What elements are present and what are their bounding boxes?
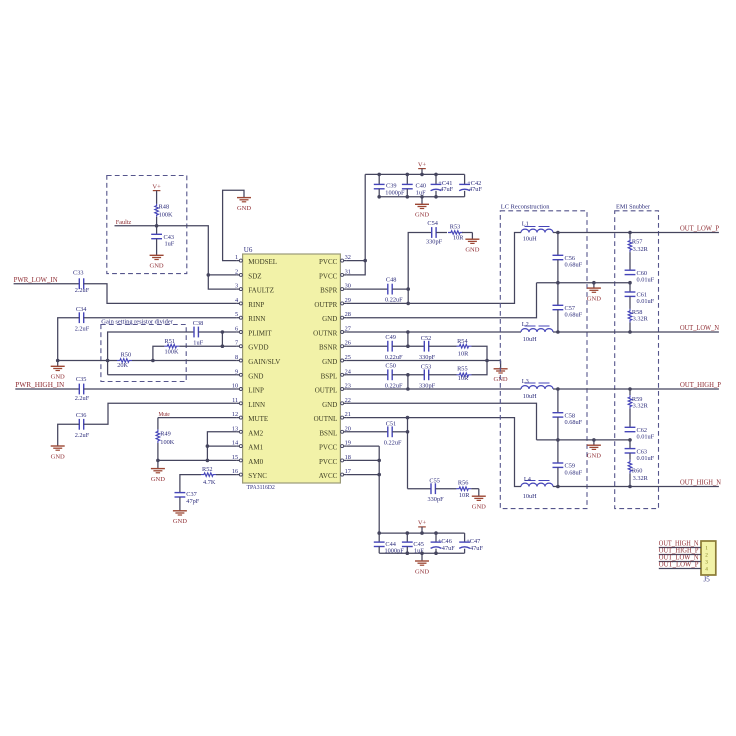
svg-text:R54: R54 <box>457 338 468 345</box>
svg-text:L4: L4 <box>524 476 532 483</box>
svg-text:0.22uF: 0.22uF <box>385 354 403 361</box>
wire V+ stub to bus <box>421 169 423 175</box>
ground (C37) <box>173 511 187 525</box>
junction L1 out <box>556 231 560 235</box>
net label OUT_HIGH_P (J5) <box>659 547 699 555</box>
wire C34 to RINN <box>84 317 237 319</box>
svg-text:1000pF: 1000pF <box>385 189 405 196</box>
pin 10 (LINP) <box>232 383 264 395</box>
pin 4 (RINP) <box>235 297 264 309</box>
capacitor C55 <box>428 478 445 503</box>
svg-text:0.68uF: 0.68uF <box>565 419 583 426</box>
wire OUTNL to L4 <box>346 418 521 487</box>
junction R49 ground <box>156 459 160 463</box>
wire R49 to ground rail <box>157 443 159 460</box>
junction OUTPR <box>406 302 410 306</box>
svg-text:47uF: 47uF <box>442 545 455 552</box>
wire bus to ground <box>421 197 423 204</box>
svg-text:100K: 100K <box>165 348 179 355</box>
capacitor C36 <box>75 412 90 439</box>
wire R51 to GVDD <box>179 345 236 347</box>
wire PVCC top bus <box>365 173 464 175</box>
pin 27 (OUTNR) <box>313 326 351 338</box>
wire OUT_LOW_N to J5 pin 3 <box>659 561 701 563</box>
capacitor C60 <box>625 270 655 284</box>
capacitor C48 <box>385 277 403 304</box>
wire OUTPR node to C54 <box>408 233 432 304</box>
wire PVCC pins 19/18/17 tie <box>346 446 379 533</box>
wire PVCC bus to pins 32/31 <box>346 174 365 275</box>
svg-text:GND: GND <box>465 247 479 254</box>
wire GAIN node to R51 <box>153 346 165 360</box>
capacitor C33 <box>73 269 90 294</box>
wire R50 to GAIN/SLV pin <box>132 360 237 362</box>
wire C35 to LINP <box>84 388 237 390</box>
connector J5 refdes <box>704 576 711 584</box>
wire BSNR to C49 <box>346 345 388 347</box>
ground (C43) <box>150 255 164 269</box>
inductor L3 <box>521 378 553 400</box>
svg-text:PVCC: PVCC <box>319 272 338 280</box>
svg-text:0.22uF: 0.22uF <box>385 297 403 304</box>
resistor R57 <box>628 233 648 271</box>
net label Mute <box>159 411 170 418</box>
wire ground rail to R50 <box>58 360 117 362</box>
wire R52 to SYNC <box>216 474 237 476</box>
wire Mute to MUTE pin <box>158 417 237 419</box>
junction AM0 <box>206 459 210 463</box>
svg-text:AM0: AM0 <box>248 458 263 466</box>
pin 7 (GVDD) <box>235 340 268 352</box>
resistor R55 <box>457 365 472 382</box>
IC U6 refdes <box>244 246 253 254</box>
svg-text:1uF: 1uF <box>193 339 203 346</box>
svg-text:C50: C50 <box>385 362 396 369</box>
junction C50/OUTPL <box>406 373 410 391</box>
svg-text:10uH: 10uH <box>523 336 537 343</box>
wire bank to ground <box>421 553 423 561</box>
junction GVDD <box>221 344 225 348</box>
EMI box label <box>616 204 650 211</box>
wire GND pin 25 to ground <box>346 361 500 369</box>
pin 21 (OUTNL) <box>314 411 351 423</box>
wire AM0 rail <box>158 459 237 461</box>
svg-text:10R: 10R <box>458 375 469 382</box>
svg-text:R56: R56 <box>458 480 469 487</box>
svg-text:GND: GND <box>237 205 251 212</box>
pin 26 (BSNR) <box>319 340 351 352</box>
svg-text:C38: C38 <box>193 320 204 327</box>
wire C55 to R56 <box>435 488 456 490</box>
wire BSNL to C51 <box>346 431 388 433</box>
pin 8 (GAIN/SLV) <box>235 354 280 366</box>
power symbol V+ (PVCC top) <box>418 161 427 168</box>
net label OUT_LOW_P <box>680 225 719 233</box>
junction AM1 <box>206 444 210 448</box>
svg-text:V+: V+ <box>418 161 427 168</box>
pin 14 (AM1) <box>232 440 264 452</box>
ground (PVCC bank) <box>415 204 429 218</box>
svg-text:MODSEL: MODSEL <box>248 258 277 266</box>
wire GND pin 22 to mid rail <box>346 403 536 440</box>
svg-text:10R: 10R <box>458 350 469 357</box>
svg-text:L2: L2 <box>522 321 529 328</box>
net label OUT_HIGH_N <box>680 479 721 487</box>
LC Reconstruction dashed box <box>500 211 587 509</box>
power symbol V+ (PVCC bottom) <box>418 520 427 527</box>
junction C56/C57 mid <box>556 281 560 285</box>
svg-text:AM2: AM2 <box>248 429 263 437</box>
svg-text:330pF: 330pF <box>426 239 443 246</box>
pin 3 (FAULTZ) <box>235 283 274 295</box>
wire C33 to RINP <box>84 284 237 304</box>
capacitor C56 <box>553 233 583 283</box>
svg-text:0.68uF: 0.68uF <box>565 312 583 319</box>
wire L4 to OUT_HIGH_N <box>553 486 719 488</box>
resistor R60 <box>628 460 648 487</box>
wire R54/R55 join <box>472 346 488 375</box>
svg-text:SDZ: SDZ <box>248 272 261 280</box>
junction mid gnd stub lower <box>592 438 596 442</box>
svg-text:C34: C34 <box>76 306 87 313</box>
capacitor C53 <box>419 364 436 390</box>
svg-text:GND: GND <box>472 504 486 511</box>
junction pin 18 <box>377 459 381 463</box>
EMI Snubber dashed box <box>615 211 659 509</box>
capacitor C39 <box>374 174 405 196</box>
wire Faultz net to SDZ <box>115 226 237 275</box>
ground (bottom bank) <box>415 561 429 575</box>
capacitor C54 <box>426 220 443 246</box>
svg-text:330pF: 330pF <box>419 354 436 361</box>
capacitor C62 <box>625 427 655 441</box>
junction R59 top <box>628 387 632 391</box>
junction R57 top <box>628 231 632 235</box>
svg-text:32: 32 <box>345 254 351 261</box>
net label OUT_LOW_N <box>680 324 719 332</box>
wire Mute to R49 <box>157 418 159 430</box>
svg-text:SYNC: SYNC <box>248 472 267 480</box>
capacitor C51 <box>384 421 402 447</box>
svg-text:R50: R50 <box>121 352 132 359</box>
ground (R53) <box>465 239 479 253</box>
svg-text:R55: R55 <box>457 365 468 372</box>
junction OUTNL/C51 <box>406 416 410 434</box>
svg-text:L3: L3 <box>522 378 529 385</box>
svg-text:PWR_LOW_IN: PWR_LOW_IN <box>14 276 58 284</box>
net label PWR_LOW_IN <box>14 276 58 284</box>
svg-text:BSPR: BSPR <box>320 287 337 295</box>
pin 18 (PVCC) <box>319 454 351 466</box>
wire C51 to OUTNL node <box>392 418 407 489</box>
svg-text:AVCC: AVCC <box>319 472 338 480</box>
ground (R56) <box>472 496 486 510</box>
svg-text:2.2uF: 2.2uF <box>75 325 90 332</box>
svg-text:PVCC: PVCC <box>319 458 338 466</box>
svg-text:47uF: 47uF <box>470 545 483 552</box>
Faultz dashed box <box>107 176 187 274</box>
svg-text:GND: GND <box>587 295 601 302</box>
junction GAIN node <box>151 359 155 363</box>
svg-text:Mute: Mute <box>159 411 170 418</box>
pin 17 (AVCC) <box>319 468 351 480</box>
wire C34 to ground rail <box>58 318 80 361</box>
net label OUT_HIGH_P <box>680 381 721 389</box>
net label PWR_HIGH_IN <box>15 381 64 389</box>
inductor L2 <box>521 321 553 343</box>
capacitor C40 <box>402 174 426 196</box>
svg-text:OUT_LOW_P: OUT_LOW_P <box>659 561 699 569</box>
pin 2 (SDZ) <box>235 268 261 280</box>
wire to FAULTZ pin 3 <box>208 275 237 289</box>
capacitor C34 <box>75 306 90 332</box>
junction R60 bottom <box>628 485 632 489</box>
pin 13 (AM2) <box>232 425 264 437</box>
svg-text:L1: L1 <box>522 220 529 227</box>
svg-text:C52: C52 <box>421 335 432 342</box>
svg-text:C51: C51 <box>386 421 397 428</box>
IC U6 part number TPA3116D2 <box>247 484 275 491</box>
ground (C36) <box>51 446 65 460</box>
svg-text:PVCC: PVCC <box>319 258 338 266</box>
junction pin 17 <box>377 473 381 477</box>
wire OUTNR to L2 <box>346 331 521 333</box>
svg-text:EMI Snubber: EMI Snubber <box>616 204 650 211</box>
svg-text:Gain setting resistor divider: Gain setting resistor divider <box>101 319 173 325</box>
junction pin 32 <box>363 259 367 263</box>
svg-text:V+: V+ <box>152 183 161 190</box>
ground (pin 25) <box>494 369 508 383</box>
pin 9 (GND) <box>235 368 263 380</box>
svg-text:GND: GND <box>173 518 187 525</box>
svg-text:R48: R48 <box>159 204 170 211</box>
svg-text:C53: C53 <box>421 364 432 371</box>
svg-text:2.2uF: 2.2uF <box>75 287 90 294</box>
wire C50 to OUTPL <box>392 375 424 389</box>
wire C38 ground loop <box>108 332 194 375</box>
pin 6 (PLIMIT) <box>235 326 272 338</box>
capacitor C59 <box>553 440 583 487</box>
capacitor C49 <box>385 334 403 361</box>
junction snubber ground <box>485 359 489 363</box>
pin 12 (MUTE) <box>232 411 268 423</box>
pin 15 (AM0) <box>232 454 264 466</box>
svg-text:0.22uF: 0.22uF <box>384 440 402 447</box>
power symbol V+ (Faultz) <box>152 183 161 190</box>
wire BSPR to C48 <box>346 288 388 290</box>
svg-text:10uH: 10uH <box>523 493 537 500</box>
ground (gain divider) <box>51 361 65 381</box>
pin 29 (OUTPR) <box>314 297 351 309</box>
pin 23 (OUTPL) <box>315 383 351 395</box>
resistor R48 <box>155 204 173 219</box>
svg-text:330pF: 330pF <box>428 496 445 503</box>
pin 28 (GND) <box>322 311 351 323</box>
svg-text:GND: GND <box>415 212 429 219</box>
svg-text:47pF: 47pF <box>186 498 199 505</box>
svg-text:31: 31 <box>345 268 351 275</box>
junction Faultz node <box>155 224 159 228</box>
svg-text:1: 1 <box>235 254 238 261</box>
svg-text:AM1: AM1 <box>248 444 263 452</box>
svg-text:FAULTZ: FAULTZ <box>248 287 274 295</box>
svg-text:OUT_LOW_P: OUT_LOW_P <box>680 225 719 233</box>
wire MODSEL to ground <box>223 190 244 260</box>
svg-text:1: 1 <box>705 546 708 552</box>
svg-text:LINP: LINP <box>248 387 264 395</box>
svg-text:OUT_HIGH_P: OUT_HIGH_P <box>680 381 721 389</box>
capacitor C41 <box>431 174 454 196</box>
svg-text:GND: GND <box>151 476 165 483</box>
pin 11 (LINN) <box>232 397 265 409</box>
junction SDZ node <box>207 273 211 277</box>
svg-text:OUTPR: OUTPR <box>314 301 337 309</box>
resistor R58 <box>628 309 648 332</box>
svg-text:10R: 10R <box>459 492 470 499</box>
pin 32 (PVCC) <box>319 254 351 266</box>
junction L4 out <box>556 485 560 489</box>
svg-text:1uF: 1uF <box>165 241 175 248</box>
gain box label <box>101 319 173 325</box>
wire AM2/AM1 tie <box>207 432 236 461</box>
LC box label <box>501 204 550 211</box>
svg-text:3.32R: 3.32R <box>633 403 649 410</box>
wire to C55 <box>408 488 432 490</box>
wire bottom bank top bus <box>379 532 464 534</box>
pin 30 (BSPR) <box>320 283 351 295</box>
svg-text:3.32R: 3.32R <box>633 316 649 323</box>
capacitor C63 <box>625 440 655 462</box>
wire GND pin 9 <box>108 374 237 376</box>
capacitor C58 <box>553 389 583 440</box>
svg-text:C48: C48 <box>386 277 397 284</box>
wire R48 to Faultz node <box>156 217 158 226</box>
junction input ground <box>56 359 60 363</box>
svg-text:R52: R52 <box>202 466 213 473</box>
svg-text:PVCC: PVCC <box>319 444 338 452</box>
svg-text:LINN: LINN <box>248 401 265 409</box>
svg-text:C35: C35 <box>76 376 87 383</box>
wire PWR_HIGH_IN to C35 <box>15 388 79 390</box>
svg-text:0.01uF: 0.01uF <box>637 434 655 441</box>
svg-text:GND: GND <box>248 372 263 380</box>
wire OUTPL to L3 <box>346 388 521 390</box>
svg-text:10R: 10R <box>453 235 464 242</box>
wire PLIMIT-GVDD tie <box>221 332 223 346</box>
resistor R56 <box>456 480 471 500</box>
wire OUT_HIGH_N to J5 pin 1 <box>659 547 701 549</box>
svg-text:GND: GND <box>587 453 601 460</box>
net label OUT_HIGH_N (J5) <box>659 540 699 548</box>
capacitor C50 <box>385 362 403 389</box>
wire R56 to ground <box>471 489 479 496</box>
capacitor C45 <box>402 533 424 554</box>
pin 24 (BSPL) <box>321 368 352 380</box>
wire C36 to ground <box>58 424 80 445</box>
junction PLIMIT <box>221 330 225 334</box>
pin 19 (PVCC) <box>319 440 351 452</box>
svg-text:10uH: 10uH <box>523 236 537 243</box>
svg-text:GND: GND <box>322 358 337 366</box>
svg-text:C33: C33 <box>73 269 84 276</box>
svg-text:R57: R57 <box>632 239 643 246</box>
capacitor C47 <box>459 533 483 553</box>
svg-text:100K: 100K <box>160 439 174 446</box>
capacitor C46 <box>431 533 456 553</box>
resistor R51 <box>164 338 179 355</box>
junction L2 out <box>556 330 560 334</box>
wire PWR_LOW_IN to C33 <box>14 283 80 285</box>
svg-text:2.2uF: 2.2uF <box>75 395 90 402</box>
capacitor C43 <box>151 226 175 255</box>
svg-text:R49: R49 <box>160 430 171 437</box>
resistor R59 <box>628 389 648 427</box>
svg-text:R53: R53 <box>450 224 461 231</box>
svg-text:2: 2 <box>705 553 708 559</box>
wire C52 to R54 <box>429 345 457 347</box>
svg-text:0.68uF: 0.68uF <box>565 262 583 269</box>
wire bottom bank bottom bus <box>379 552 464 554</box>
wire R53 to ground <box>462 233 472 240</box>
wire C53 to R55 <box>429 374 457 376</box>
svg-text:C55: C55 <box>429 478 440 485</box>
svg-text:GND: GND <box>322 315 337 323</box>
junction mid gnd stub <box>592 281 596 285</box>
svg-text:BSNR: BSNR <box>319 344 338 352</box>
svg-text:10uH: 10uH <box>523 393 537 400</box>
junction ground loop <box>106 359 110 363</box>
junctions top bus <box>377 173 437 177</box>
capacitor C44 <box>374 533 404 554</box>
svg-text:OUTPL: OUTPL <box>315 387 338 395</box>
svg-text:3: 3 <box>235 283 238 290</box>
pin 5 (RINN) <box>235 311 265 323</box>
junction EMI mid upper <box>628 281 632 285</box>
svg-text:BSNL: BSNL <box>319 429 337 437</box>
svg-text:4: 4 <box>705 567 708 573</box>
svg-text:3.32R: 3.32R <box>633 475 649 482</box>
junction C58/C59 mid <box>556 438 560 442</box>
wire L2 to OUT_LOW_N <box>553 331 719 333</box>
svg-text:2: 2 <box>235 268 238 275</box>
connector J5 body <box>701 541 716 575</box>
pin 22 (GND) <box>322 397 351 409</box>
svg-text:PLIMIT: PLIMIT <box>248 330 272 338</box>
junction EMI mid lower <box>628 438 632 442</box>
svg-text:47uF: 47uF <box>440 186 453 193</box>
svg-text:GND: GND <box>150 263 164 270</box>
svg-text:0.01uF: 0.01uF <box>637 298 655 305</box>
wire lower mid ground rail <box>537 439 631 441</box>
wire PVCC bottom bus <box>379 196 464 198</box>
ground (LC upper) <box>587 283 601 303</box>
svg-text:RINP: RINP <box>248 301 264 309</box>
wire GND pin 28 to mid rail <box>346 283 536 318</box>
svg-text:V+: V+ <box>418 520 427 527</box>
svg-text:Faultz: Faultz <box>116 219 132 226</box>
pin 20 (BSNL) <box>319 425 351 437</box>
wire OUT_HIGH_P to J5 pin 2 <box>659 554 701 556</box>
connector J5 pin numbers <box>705 546 708 573</box>
IC U6 body <box>243 254 341 483</box>
gain setting dashed box <box>101 325 186 382</box>
capacitor C42 <box>459 174 482 196</box>
capacitor C57 <box>553 283 583 332</box>
resistor R54 <box>457 338 472 357</box>
svg-text:BSPL: BSPL <box>321 372 338 380</box>
svg-text:2.2uF: 2.2uF <box>75 432 90 439</box>
wire V+ stub bottom <box>421 527 423 533</box>
